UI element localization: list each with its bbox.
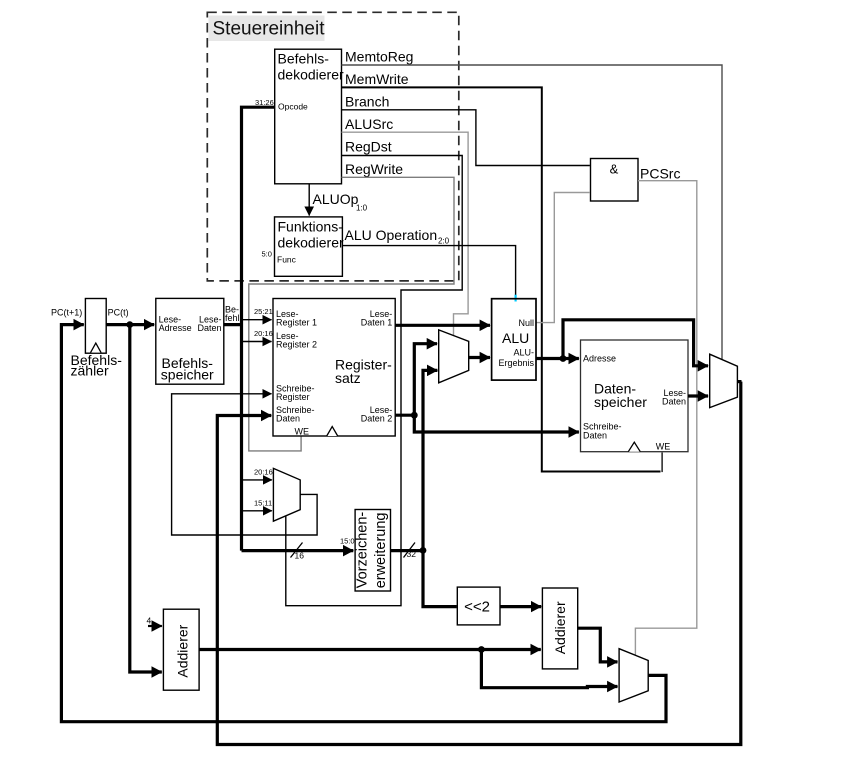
mux MemtoReg (ALU/mem) (710, 354, 738, 407)
wire PC+4 adder output (199, 648, 541, 651)
adder PC+4 Addierer box (163, 609, 199, 690)
svg-text:fehl: fehl (225, 313, 240, 323)
node Lese-Daten 2 (411, 412, 418, 419)
register file Registersatz box (273, 299, 395, 437)
svg-text:PC(t+1): PC(t+1) (51, 307, 82, 317)
mux PCSrc (pc+4/branch) (619, 649, 648, 702)
wire Null (536, 193, 590, 323)
register file clock triangle (327, 427, 338, 437)
svg-text:speicher: speicher (161, 366, 214, 382)
wire immediate up to ALUSrc mux (423, 370, 437, 550)
wire ALU op cyan stub (514, 295, 516, 302)
wire RegDst (286, 156, 462, 606)
svg-text:Branch: Branch (345, 94, 389, 110)
wire MemWrite (342, 87, 661, 471)
ALU U1 box (492, 299, 536, 380)
svg-text:PC(t): PC(t) (108, 307, 129, 317)
node sign extend (420, 547, 427, 554)
wire PC(t) to instruction memory (106, 323, 154, 326)
wire 20:16 tap to reg2 (242, 341, 272, 343)
svg-text:5:0: 5:0 (262, 250, 272, 259)
shift left 2 box (457, 587, 500, 625)
wire branch adder output to mux (578, 628, 618, 662)
svg-text:25:21: 25:21 (254, 307, 273, 316)
wire ALUOp arrow (308, 184, 310, 216)
svg-text:<<2: <<2 (464, 599, 490, 616)
wire sign extender output (391, 549, 424, 552)
svg-text:ALUOp: ALUOp (313, 191, 359, 207)
svg-text:20:16: 20:16 (254, 329, 273, 338)
AND gate U-PCSrc box (591, 159, 639, 202)
svg-text:speicher: speicher (594, 394, 647, 410)
svg-text:15:11: 15:11 (254, 499, 272, 508)
svg-text:20:16: 20:16 (254, 468, 273, 477)
wire WE stub data memory (661, 453, 663, 473)
svg-text:&: & (610, 162, 619, 177)
wire PC(t) down to adder (130, 325, 162, 672)
wire ALU-Ergebnis to mem mux (563, 320, 708, 366)
svg-text:Daten 2: Daten 2 (361, 414, 393, 424)
svg-text:Addierer: Addierer (174, 624, 190, 677)
svg-text:ALU Operation: ALU Operation (345, 227, 438, 243)
wire ALU-Ergebnis to Adresse (536, 357, 579, 360)
function decoder U-Funktionsdekodierer box (275, 217, 343, 276)
wire PCSrc (635, 181, 696, 656)
svg-text:erweiterung: erweiterung (373, 513, 389, 589)
wire Branch (342, 110, 590, 166)
svg-text:MemWrite: MemWrite (345, 71, 409, 87)
svg-text:Steuereinheit: Steuereinheit (213, 19, 326, 40)
svg-text:Adresse: Adresse (159, 323, 192, 333)
wire MemtoReg (342, 65, 723, 359)
wire 20:16 tap to mux (242, 479, 272, 481)
wire RegWrite (249, 177, 454, 451)
svg-text:zähler: zähler (71, 363, 109, 379)
svg-text:Addierer: Addierer (552, 601, 568, 654)
wire Lese-Daten 2 to data memory (414, 415, 579, 432)
svg-text:MemtoReg: MemtoReg (345, 49, 413, 65)
svg-text:1:0: 1:0 (356, 204, 368, 213)
data memory clock triangle (628, 442, 640, 452)
svg-text:ALU-: ALU- (513, 348, 534, 358)
svg-text:Opcode: Opcode (278, 102, 308, 112)
svg-text:RegWrite: RegWrite (345, 161, 403, 177)
PC register Befehlszaehler box (85, 299, 106, 354)
wire constant 4 stub (148, 625, 162, 627)
svg-text:Register: Register (276, 392, 310, 402)
node PC+4 (478, 646, 485, 653)
slash 32 (404, 543, 416, 558)
mux RegDst (20:16/15:11) (273, 468, 300, 521)
svg-text:Register 2: Register 2 (276, 340, 317, 350)
svg-text:satz: satz (335, 370, 361, 386)
svg-text:Ergebnis: Ergebnis (498, 358, 534, 368)
wire ALU Operation (342, 246, 515, 296)
svg-text:WE: WE (656, 442, 671, 452)
svg-text:Daten 1: Daten 1 (361, 318, 393, 328)
svg-text:Befehls-: Befehls- (278, 51, 330, 67)
wire 15:0 to sign extender (242, 549, 354, 552)
wire 25:21 tap (242, 319, 272, 321)
svg-text:RegDst: RegDst (345, 139, 392, 155)
control unit Steuereinheit dashed box (207, 12, 458, 281)
svg-text:Register 1: Register 1 (276, 318, 317, 328)
svg-text:Daten: Daten (197, 323, 221, 333)
wire mem mux output stub (737, 380, 741, 383)
svg-text:Null: Null (518, 318, 534, 328)
data memory Datenspeicher box (581, 340, 689, 452)
wire Lese-Daten 2 up to mux (414, 344, 437, 416)
svg-text:32: 32 (407, 549, 417, 559)
wire PC(t+1) feedback (61, 325, 666, 722)
svg-text:Daten: Daten (662, 396, 686, 406)
svg-text:WE: WE (295, 427, 310, 437)
instruction memory Befehlsspeicher box (156, 298, 224, 384)
sign extender Vorzeichenerweiterung box (355, 510, 390, 592)
svg-text:ALU: ALU (502, 330, 529, 346)
wire 15:11 tap to mux (242, 510, 272, 512)
wire Befehl instruction bus (224, 323, 242, 326)
wire Lese-Daten 2 out (395, 414, 414, 417)
svg-text:ALUSrc: ALUSrc (345, 116, 393, 132)
mux ALUSrc (reg/imm) (439, 330, 469, 383)
PC clock triangle (91, 343, 102, 353)
svg-text:dekodierer: dekodierer (278, 67, 344, 83)
svg-text:2:0: 2:0 (438, 237, 450, 246)
svg-text:Vorzeichen-: Vorzeichen- (355, 512, 371, 589)
wire regdst mux output to Schreibe-Register (172, 394, 318, 535)
svg-text:PCSrc: PCSrc (640, 166, 680, 182)
svg-text:16: 16 (295, 551, 305, 561)
adder branch Addierer box (542, 588, 577, 669)
svg-text:Daten: Daten (583, 431, 607, 441)
wire ALUSrc (342, 132, 469, 336)
wire shifter output to adder (500, 605, 541, 608)
wire write-back to Schreibe-Daten (217, 382, 741, 745)
slash 16 (291, 543, 303, 558)
svg-text:Daten: Daten (276, 414, 300, 424)
wire ALUSrc mux output (469, 356, 490, 359)
instruction decoder U-Befehlsdekodierer box (275, 49, 342, 184)
svg-text:15:0: 15:0 (340, 537, 355, 546)
svg-text:dekodierer: dekodierer (278, 235, 344, 251)
wire immediate down to shifter (423, 551, 457, 607)
svg-text:4: 4 (147, 616, 152, 626)
svg-text:Adresse: Adresse (583, 354, 616, 364)
node ALU-Ergebnis (560, 355, 567, 362)
svg-text:Func: Func (277, 255, 297, 265)
wire Lese-Daten mem to mux (688, 394, 708, 397)
svg-text:Funktions-: Funktions- (278, 219, 344, 235)
Steuereinheit title (209, 16, 325, 42)
wire PC+4 down to PCSrc mux (481, 650, 617, 688)
node PC(t) (126, 321, 133, 328)
wire Lese-Daten 1 to ALU (395, 324, 490, 327)
